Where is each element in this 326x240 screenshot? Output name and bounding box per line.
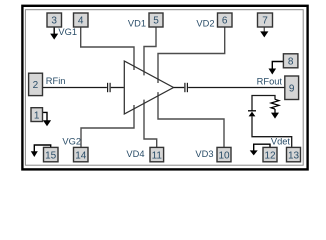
pin 6 <box>218 13 233 27</box>
pin 9 (RFout) <box>285 76 299 100</box>
wire VG1 bias line (pin 4 to amplifier) <box>81 27 134 70</box>
wire RF input (pin 2 to C1) <box>43 87 107 89</box>
svg-text:VG1: VG1 <box>58 27 77 37</box>
svg-text:2: 2 <box>33 80 39 91</box>
pin 4 <box>74 13 89 27</box>
pin 14 <box>74 147 89 161</box>
IC die inner outline <box>25 10 303 166</box>
detector tap bracket <box>252 96 275 111</box>
resistor R1 (detector load) <box>271 99 279 109</box>
ground below resistor R1 <box>271 109 279 119</box>
wire amplifier output to C2 <box>174 87 185 89</box>
svg-text:5: 5 <box>153 16 159 27</box>
svg-text:1: 1 <box>34 110 40 121</box>
diode D1 <box>249 112 256 117</box>
svg-text:VG2: VG2 <box>62 136 81 146</box>
svg-text:Vdet: Vdet <box>271 137 291 147</box>
svg-text:RFout: RFout <box>257 76 283 86</box>
wire diode to pin 13 (Vdet) <box>252 116 292 147</box>
IC package outline outer frame <box>22 6 307 170</box>
svg-text:10: 10 <box>218 150 230 161</box>
wire VD3 bias line (amplifier to pin 10) <box>158 92 224 147</box>
ground at pin 3 <box>50 27 58 40</box>
pin 3 <box>47 13 62 27</box>
wire VG2 bias line (amplifier to pin 14) <box>81 105 134 147</box>
svg-text:6: 6 <box>222 16 228 27</box>
svg-text:14: 14 <box>75 150 87 161</box>
diode D1 cathode bar <box>248 110 256 112</box>
svg-text:15: 15 <box>45 150 57 161</box>
pin 8 <box>283 54 298 68</box>
capacitor C2 (output DC block) <box>185 83 188 92</box>
pin 1 <box>31 108 43 122</box>
wire VD2 bias line (pin 6 to amplifier) <box>158 28 225 84</box>
capacitor C1 (input DC block) <box>108 83 111 92</box>
pin 11 <box>150 147 164 161</box>
op-amp U1 amplifier triangle <box>124 61 173 114</box>
svg-text:VD2: VD2 <box>196 18 214 28</box>
pin 12 <box>263 147 277 161</box>
pin 13 <box>287 147 301 161</box>
pin 5 <box>149 13 163 27</box>
svg-text:9: 9 <box>289 83 295 94</box>
ground at pin 7 <box>260 27 268 37</box>
svg-text:11: 11 <box>152 150 163 161</box>
wire VD1 bias line (pin 5 to amplifier) <box>144 27 156 75</box>
pin 10 <box>217 147 231 161</box>
svg-text:RFin: RFin <box>46 76 66 86</box>
wire C2 to pin 9 RFout <box>188 87 285 89</box>
svg-text:13: 13 <box>288 150 300 161</box>
svg-text:7: 7 <box>262 16 268 27</box>
ground at pin 12 <box>250 144 270 155</box>
ground at pin 15 <box>31 145 51 157</box>
svg-text:12: 12 <box>264 150 276 161</box>
pin 7 <box>258 13 273 27</box>
svg-text:4: 4 <box>78 16 84 27</box>
ground at pin 8 <box>269 62 284 75</box>
svg-text:3: 3 <box>51 16 57 27</box>
wire C1 to amplifier input <box>111 87 124 89</box>
svg-text:VD1: VD1 <box>128 18 146 28</box>
pin 2 (RFin) <box>29 73 43 95</box>
ground at pin 1 <box>43 112 52 126</box>
svg-text:VD3: VD3 <box>195 149 213 159</box>
pin 15 <box>44 147 59 161</box>
svg-text:8: 8 <box>288 56 294 67</box>
svg-text:VD4: VD4 <box>126 149 144 159</box>
wire VD4 bias line (amplifier to pin 11) <box>144 100 157 148</box>
